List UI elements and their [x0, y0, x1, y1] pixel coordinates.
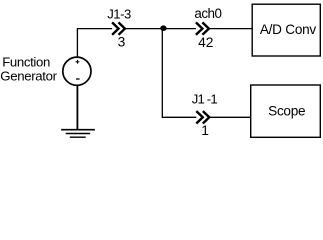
svg-text:Scope: Scope — [268, 103, 305, 118]
connector arrow J1-1 (double chevron) — [196, 111, 209, 123]
minus polarity mark — [76, 78, 80, 80]
wire: ach0 arrow to A/D Conv block — [209, 28, 252, 30]
junction node — [160, 25, 166, 31]
svg-text:42: 42 — [198, 35, 213, 50]
svg-text:Generator: Generator — [0, 68, 57, 83]
wire: J1-1 arrow to Scope block — [209, 116, 250, 118]
svg-text:Function: Function — [2, 54, 50, 69]
svg-text:1: 1 — [201, 123, 209, 138]
ground — [61, 130, 95, 138]
wire: source bottom to ground — [76, 85, 78, 129]
block U1: A/D Conv — [252, 4, 320, 56]
wire: junction down and right to J1-1 arrow — [162, 29, 196, 118]
plus polarity mark — [76, 60, 80, 64]
svg-text:A/D Conv: A/D Conv — [260, 22, 317, 37]
label "Function Generator" — [0, 54, 57, 83]
svg-text:J1 -1: J1 -1 — [192, 91, 218, 106]
connector arrow J1-3 (double chevron) — [112, 22, 125, 34]
block U2: Scope — [251, 85, 321, 137]
connector arrow ach0 (double chevron) — [196, 22, 209, 34]
wire: J1-3 arrow to ach0 arrow (through junction) — [125, 28, 196, 30]
voltage source V1: Function Generator circle — [63, 57, 91, 85]
svg-text:ach0: ach0 — [194, 6, 221, 21]
svg-text:J1-3: J1-3 — [107, 6, 131, 21]
svg-text:3: 3 — [118, 34, 126, 49]
wire: source top up and right to J1-3 arrow — [77, 29, 112, 57]
